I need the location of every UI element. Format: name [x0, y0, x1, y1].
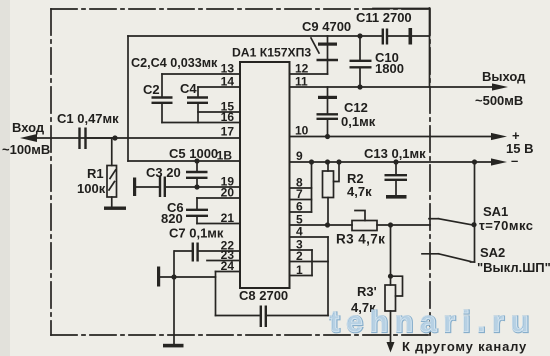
capacitor C10 leads	[359, 36, 361, 87]
+15V arrow head	[491, 133, 507, 140]
input arrow head	[20, 134, 37, 142]
svg-text:C9 4700: C9 4700	[302, 19, 351, 34]
node R3' wiper tap	[388, 274, 393, 279]
svg-text:17: 17	[221, 125, 235, 139]
svg-text:~500мВ: ~500мВ	[475, 93, 523, 108]
switch SA2 pole stub	[471, 261, 475, 263]
capacitor C2 bottom lead	[161, 104, 163, 123]
resistor R3' bottom lead	[390, 311, 392, 342]
node C5 bottom	[194, 184, 199, 189]
resistor R2 wiper loop	[334, 162, 340, 182]
wire pin5	[290, 224, 353, 226]
svg-text:C7 0,1мк: C7 0,1мк	[169, 226, 224, 241]
svg-text:1800: 1800	[375, 61, 404, 76]
svg-text:10: 10	[295, 124, 309, 138]
svg-text:6: 6	[296, 200, 303, 214]
svg-text:11: 11	[295, 75, 308, 89]
capacitor C3 plates	[160, 177, 165, 198]
svg-text:DA1 К157ХП3: DA1 К157ХП3	[232, 46, 311, 60]
capacitor C6 leads	[196, 198, 198, 224]
resistor R2 body	[323, 171, 334, 198]
svg-text:2: 2	[296, 249, 303, 263]
svg-text:20: 20	[221, 186, 235, 200]
resistor R2 top lead	[327, 162, 329, 171]
capacitor C5 leads	[196, 161, 198, 187]
wire pin21	[197, 223, 240, 225]
capacitor C9 stem and lead	[327, 36, 329, 74]
svg-text:Выход: Выход	[482, 69, 526, 84]
dash-dot module border	[51, 9, 430, 335]
wire switch pole riser x474	[474, 162, 476, 262]
capacitor C13 plates	[385, 175, 408, 180]
wire pin13	[162, 73, 240, 75]
wire pin7 stub	[290, 199, 312, 201]
capacitor C11 right lead	[412, 35, 430, 37]
svg-text:100к: 100к	[77, 181, 106, 196]
resistor R3 wiper	[355, 211, 365, 221]
ground bar of R1	[104, 207, 126, 210]
wire pin4	[290, 236, 329, 238]
capacitor plates and thick bars	[80, 29, 408, 328]
wire pin15	[198, 111, 240, 113]
switch SA1 blade	[439, 219, 474, 225]
capacitor C9 trimmer arrow	[311, 38, 319, 53]
wire pin19	[166, 186, 241, 188]
capacitor C11 plates	[383, 29, 387, 45]
capacitor C2 plates	[152, 98, 173, 103]
wire pin24	[216, 271, 241, 273]
svg-text:4: 4	[296, 225, 303, 239]
node ground drop	[171, 274, 176, 279]
node switch riser top	[472, 159, 477, 164]
capacitor C2 top lead	[161, 74, 163, 97]
svg-text:C12: C12	[344, 100, 368, 115]
wire ground drop x174	[173, 251, 175, 344]
svg-text:24: 24	[221, 259, 235, 273]
border top-right solid segment	[373, 8, 430, 10]
capacitor C4 plates	[187, 98, 208, 103]
capacitor C6 plates	[186, 210, 208, 216]
svg-text:C1 0,47мк: C1 0,47мк	[57, 111, 119, 126]
svg-text:16: 16	[221, 110, 235, 124]
wire C8 riser left	[215, 272, 217, 316]
svg-text:C5 1000: C5 1000	[169, 146, 218, 161]
pin numbers left	[217, 62, 235, 274]
svg-text:4,7к: 4,7к	[347, 184, 372, 199]
node bus pin9	[309, 159, 314, 164]
node R2 top	[325, 159, 330, 164]
svg-text:R3': R3'	[357, 284, 377, 299]
wire pin2	[290, 261, 329, 263]
svg-text:C2,C4 0,033мк: C2,C4 0,033мк	[131, 56, 218, 70]
capacitor C11 mid lead	[388, 35, 409, 37]
svg-text:"Выкл.ШП": "Выкл.ШП"	[477, 260, 550, 275]
wire pin10 +15V line	[290, 136, 495, 138]
capacitor C11 polarized bar	[409, 28, 413, 45]
resistor R1 bottom lead	[111, 197, 113, 207]
capacitor C12 top bar plate	[318, 96, 337, 99]
capacitor C3 left lead	[136, 186, 159, 188]
wire C11 drop to output	[429, 8, 431, 87]
capacitor C8 plates	[261, 306, 266, 328]
svg-text:C13 0,1мк: C13 0,1мк	[364, 146, 426, 161]
wire pin8 stub	[290, 187, 312, 189]
wire pin6 stub	[290, 211, 312, 213]
wire pin12	[290, 73, 328, 75]
wire pin20	[197, 197, 240, 199]
wire top bus y36	[128, 35, 360, 37]
wire bus pins 9-6	[311, 162, 313, 212]
wire pin17 input line	[34, 137, 240, 139]
svg-text:0,1мк: 0,1мк	[341, 114, 376, 129]
svg-text:–: –	[511, 153, 518, 168]
wire pin22 left part	[175, 250, 192, 252]
pin numbers right	[295, 62, 309, 278]
wire left riser x128	[127, 36, 129, 161]
capacitor C1 plates	[80, 128, 86, 150]
svg-text:1В: 1В	[217, 149, 233, 163]
node input junction	[112, 135, 117, 140]
svg-text:C8 2700: C8 2700	[239, 288, 288, 303]
svg-text:C3 20: C3 20	[146, 165, 181, 180]
svg-text:13: 13	[221, 62, 235, 76]
wire pin3 stub	[290, 249, 313, 251]
output arrow head	[492, 83, 508, 90]
svg-text:21: 21	[221, 211, 235, 225]
node C12 pin10	[325, 134, 330, 139]
shield bar terminal near C7	[157, 267, 160, 287]
wire pin14	[198, 86, 240, 88]
resistor R2 bottom lead	[327, 198, 329, 226]
node R3 right	[388, 222, 393, 227]
watermark tehnari.ru	[329, 305, 536, 339]
node C13 top	[393, 159, 398, 164]
capacitor C11 left lead	[360, 35, 382, 37]
wire pin22 right part	[199, 250, 241, 252]
svg-text:820: 820	[161, 211, 183, 226]
svg-text:9: 9	[296, 149, 303, 163]
svg-text:SA1: SA1	[483, 204, 508, 219]
svg-text:tehnari.ru: tehnari.ru	[329, 305, 535, 338]
down arrow to other channel	[387, 342, 395, 353]
resistor R3' top lead	[390, 225, 392, 285]
wire bus pins 3-1	[311, 250, 313, 276]
wire C8 riser right	[327, 237, 329, 316]
IC DA1 K157KhP3 body	[240, 62, 290, 288]
node C9 C10 C11 top	[357, 33, 362, 38]
shield bar terminal of C3	[133, 178, 136, 197]
capacitor C7 plates	[193, 243, 198, 262]
switch SA2 blade	[439, 254, 471, 262]
svg-text:C4: C4	[180, 81, 197, 96]
capacitor C5 plates	[186, 172, 208, 178]
node C5 top	[194, 158, 199, 163]
node SA1 pole	[471, 222, 476, 227]
wire pin16	[162, 122, 240, 124]
svg-text:R3 4,7к: R3 4,7к	[336, 232, 385, 247]
wire pin23 stub	[207, 260, 240, 262]
svg-text:12: 12	[295, 62, 309, 76]
capacitor C9 top bar plate	[318, 43, 337, 46]
switch SA1 contact stub	[429, 218, 439, 220]
wire pin18	[128, 160, 240, 162]
minus arrow head	[491, 158, 507, 165]
capacitor C13 leads	[395, 162, 397, 195]
svg-text:R1: R1	[87, 166, 104, 181]
wire pin9 minus line	[290, 161, 495, 163]
svg-text:SA2: SA2	[480, 245, 505, 260]
svg-text:14: 14	[221, 75, 235, 89]
wire pin5 right of R3	[377, 224, 430, 226]
switch SA2 contact stub	[422, 253, 439, 255]
wire shield bus y277	[160, 276, 216, 278]
svg-text:~100мВ: ~100мВ	[2, 142, 50, 157]
svg-text:К другому каналу: К другому каналу	[402, 339, 527, 354]
resistor R1 top lead	[111, 138, 113, 166]
node R2 bottom	[325, 222, 330, 227]
resistor R1 body	[107, 166, 117, 198]
wire C8 bottom right part	[267, 315, 328, 317]
wire pin1 stub	[290, 275, 313, 277]
capacitor C9 bottom plate	[317, 59, 339, 61]
svg-text:C2: C2	[143, 82, 160, 97]
resistor R3' body	[385, 285, 396, 311]
resistor R3' wiper loop	[391, 276, 403, 296]
capacitor C12 leads	[327, 87, 329, 137]
svg-text:C11 2700: C11 2700	[356, 10, 412, 25]
wire pin11 output line	[290, 86, 495, 88]
capacitor C4 bottom lead	[197, 104, 199, 123]
node C10 output	[357, 84, 362, 89]
svg-text:τ=70мкс: τ=70мкс	[479, 218, 534, 233]
svg-text:Вход: Вход	[12, 120, 45, 135]
ground bar of C13	[386, 195, 407, 199]
capacitor C1 leads	[87, 137, 116, 139]
ground bar bottom	[163, 344, 184, 348]
capacitor C10 plates	[350, 61, 372, 68]
wire C8 bottom left part	[216, 315, 260, 317]
svg-text:1: 1	[296, 263, 303, 277]
capacitor C4 top lead	[197, 87, 199, 97]
node R2 wiper	[336, 159, 341, 164]
capacitor C12 plates	[317, 114, 339, 119]
resistor R3 body	[352, 221, 377, 231]
